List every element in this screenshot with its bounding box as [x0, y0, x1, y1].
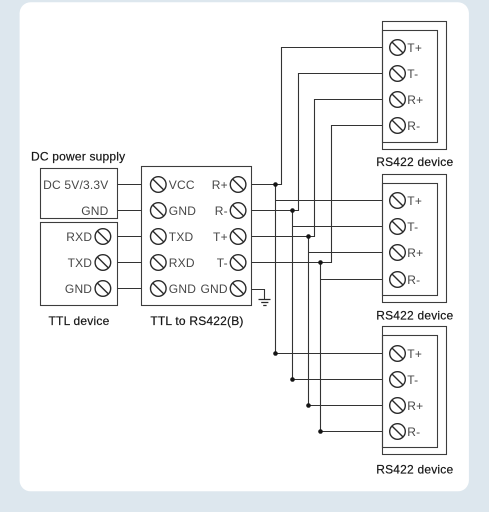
svg-text:DC 5V/3.3V: DC 5V/3.3V [43, 178, 108, 192]
RS422 device 3 [376, 327, 453, 477]
terminal RXD (TTL device) [95, 229, 111, 245]
svg-text:GND: GND [81, 204, 108, 218]
wire GND [118, 210, 142, 212]
junction T- bottom [318, 429, 323, 434]
wire T+ to device1 [252, 100, 383, 237]
wire VCC [118, 184, 142, 186]
wire T+ drop to device3 [309, 237, 383, 406]
TTL to RS422(B) converter box U1 [142, 167, 252, 306]
terminal T- right (converter) [230, 255, 246, 271]
terminal GND left (converter) [151, 203, 167, 219]
terminal VCC left (converter) [151, 177, 167, 193]
wire RXD-TXD [118, 236, 142, 238]
device3 outer box [383, 327, 447, 455]
terminal R+ (device3) [390, 398, 406, 414]
terminal GND (TTL device) [95, 281, 111, 297]
terminal R- (device1) [390, 118, 406, 134]
svg-text:GND: GND [201, 282, 228, 296]
svg-text:R-: R- [407, 273, 420, 287]
svg-text:T+: T+ [407, 194, 422, 208]
terminal R- (device3) [390, 424, 406, 440]
terminal GND right (converter) [230, 281, 246, 297]
svg-text:RXD: RXD [169, 256, 195, 270]
wire GND to earth [252, 290, 265, 300]
TTL device box [41, 223, 118, 306]
DC power supply box PS1 [41, 169, 118, 219]
junction R- top [290, 208, 295, 213]
svg-text:TXD: TXD [169, 230, 194, 244]
terminal R+ (device1) [390, 92, 406, 108]
svg-text:T+: T+ [407, 41, 422, 55]
terminal T+ (device3) [390, 346, 406, 362]
svg-text:R+: R+ [407, 399, 423, 413]
device1 inner box [383, 31, 438, 143]
svg-text:GND: GND [65, 282, 92, 296]
svg-text:R-: R- [407, 119, 420, 133]
RS422 device 1 [376, 22, 453, 170]
svg-text:T-: T- [407, 67, 418, 81]
wire R- drop to device3 [293, 211, 383, 380]
terminal T- (device3) [390, 372, 406, 388]
svg-text:DC power supply: DC power supply [31, 150, 125, 164]
svg-text:TTL to RS422(B): TTL to RS422(B) [150, 314, 243, 328]
svg-text:T+: T+ [407, 347, 422, 361]
junction T- top [318, 260, 323, 265]
terminal RXD left (converter) [151, 255, 167, 271]
svg-text:VCC: VCC [169, 178, 195, 192]
terminal TXD (TTL device) [95, 255, 111, 271]
junction T+ top [306, 234, 311, 239]
wire R- branch to device2 [293, 226, 383, 228]
junction R+ bottom [273, 351, 278, 356]
terminal T- (device2) [390, 219, 406, 235]
wire GND-GND [118, 288, 142, 290]
device3 inner box [383, 336, 438, 448]
svg-text:R+: R+ [212, 178, 228, 192]
svg-text:R-: R- [215, 204, 228, 218]
terminal T+ (device2) [390, 193, 406, 209]
terminal TXD left (converter) [151, 229, 167, 245]
svg-text:RS422 device: RS422 device [376, 462, 453, 476]
svg-text:R-: R- [407, 425, 420, 439]
svg-text:T-: T- [217, 256, 228, 270]
device2 outer box [383, 175, 447, 303]
wire T- branch to device2 [321, 279, 383, 281]
svg-text:GND: GND [169, 282, 196, 296]
wire R+ to device1 [252, 48, 383, 185]
svg-text:R+: R+ [407, 246, 423, 260]
svg-text:T-: T- [407, 220, 418, 234]
terminal R+ (device2) [390, 245, 406, 261]
svg-text:GND: GND [169, 204, 196, 218]
junction T+ bottom [306, 403, 311, 408]
svg-text:RXD: RXD [66, 230, 92, 244]
wire T- to device1 [252, 126, 383, 263]
terminal T+ (device1) [390, 40, 406, 56]
svg-text:RS422 device: RS422 device [376, 155, 453, 169]
RS422 device 2 [376, 175, 453, 323]
svg-text:R+: R+ [407, 93, 423, 107]
wire R+ branch to device2 [276, 200, 383, 202]
terminal R- right (converter) [230, 203, 246, 219]
terminal T- (device1) [390, 66, 406, 82]
terminal R+ right (converter) [230, 177, 246, 193]
wire T- drop to device3 [321, 263, 383, 432]
junction R+ top [273, 182, 278, 187]
wire T+ branch to device2 [309, 252, 383, 254]
ground symbol [259, 300, 271, 306]
device1 outer box [383, 22, 447, 150]
svg-text:TXD: TXD [68, 256, 93, 270]
terminal R- (device2) [390, 272, 406, 288]
svg-text:RS422 device: RS422 device [376, 309, 453, 323]
wire R+ drop to device3 [276, 185, 383, 354]
svg-text:T-: T- [407, 373, 418, 387]
wire R- to device1 [252, 74, 383, 211]
junction R- bottom [290, 377, 295, 382]
wire TXD-RXD [118, 262, 142, 264]
terminal GND left (converter) [151, 281, 167, 297]
terminal T+ right (converter) [230, 229, 246, 245]
svg-text:TTL device: TTL device [49, 314, 110, 328]
svg-text:T+: T+ [213, 230, 228, 244]
device2 inner box [383, 184, 438, 296]
